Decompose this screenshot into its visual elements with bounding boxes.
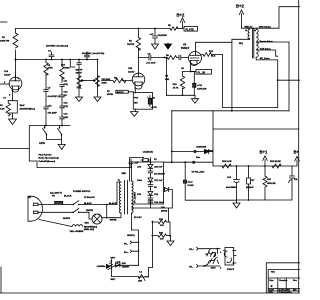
wire NFB [223, 55, 278, 108]
frame left tick [0, 22, 7, 293]
svg-text:C13: C13 [64, 103, 69, 105]
svg-text:R10: R10 [209, 51, 214, 53]
svg-text:63K: 63K [165, 79, 169, 81]
svg-text:PL6W: PL6W [188, 185, 195, 187]
svg-text:PD: PD [52, 196, 55, 198]
triode V1B [132, 72, 145, 89]
svg-text:Plub Pub BU: Plub Pub BU [39, 154, 52, 156]
svg-text:1uF: 1uF [135, 163, 139, 165]
wire B+2 right [292, 156, 299, 166]
svg-text:1.5K: 1.5K [0, 109, 5, 111]
capacitor col x=62 a [60, 85, 64, 96]
capacitor col x=62 d [60, 117, 64, 126]
wire plate V1A [15, 60, 17, 78]
svg-text:+C9 10uF: +C9 10uF [146, 63, 156, 65]
svg-text:C8: C8 [48, 65, 52, 67]
svg-text:1: 1 [220, 252, 222, 254]
cathode network V1A: resistor R1 and cap C1 [6, 90, 17, 119]
svg-text:10k: 10k [294, 179, 298, 181]
svg-text:R25: R25 [159, 219, 164, 221]
ground (filled) mid [165, 43, 172, 49]
svg-text:12AX7: 12AX7 [4, 74, 11, 77]
svg-text:C9: C9 [48, 88, 52, 90]
svg-text:B+2: B+2 [177, 13, 185, 18]
svg-text:D30: D30 [122, 263, 127, 265]
lamp NE1 [92, 214, 102, 224]
text labels preamp [0, 25, 216, 119]
svg-text:.1K: .1K [64, 95, 68, 97]
wire grid V1A [0, 83, 10, 85]
svg-text:R8: R8 [166, 55, 170, 57]
svg-text:R22 BL2W: R22 BL2W [270, 161, 282, 163]
svg-text:12AX7: 12AX7 [128, 71, 135, 74]
svg-text:C23/D30B: C23/D30B [196, 147, 206, 149]
switch S1b [73, 209, 89, 213]
svg-text:10uF/25V: 10uF/25V [158, 35, 168, 37]
wire preamp lower rail [0, 126, 70, 162]
svg-text:C4: C4 [48, 50, 52, 53]
svg-text:R7: R7 [107, 91, 111, 93]
resistor R6 [102, 78, 133, 82]
svg-text:FIL-: FIL- [189, 266, 193, 268]
svg-text:2x2: 2x2 [117, 262, 121, 264]
diode D4 out [164, 187, 169, 191]
svg-text:Number: Number [279, 280, 287, 282]
node plate V1A [15, 59, 17, 61]
svg-text:4.2-3: 4.2-3 [188, 181, 194, 184]
svg-text:FIL+: FIL+ [189, 249, 194, 251]
svg-text:PLATE: PLATE [186, 27, 195, 31]
capacitor C7 decoupling [153, 29, 158, 45]
transformer PT [119, 181, 133, 215]
svg-text:22uF/35V_blue(C2.2a): 22uF/35V_blue(C2.2a) [46, 46, 68, 48]
svg-text:NE1: NE1 [85, 223, 90, 225]
wire CT to pilot row [149, 268, 153, 277]
wire heater left connect [139, 276, 149, 278]
svg-text:R21: R21 [267, 179, 272, 181]
wire raw B+ up [172, 111, 213, 162]
svg-text:470K: 470K [48, 67, 54, 70]
svg-text:WHITE: WHITE [63, 218, 70, 220]
svg-text:R5: R5 [168, 25, 172, 27]
svg-text:BLK: BLK [211, 56, 216, 58]
wire PT primary leads [117, 182, 121, 205]
capacitor col x=62 c [60, 106, 64, 117]
cap to V3 grid [179, 55, 188, 60]
pot VR volume [93, 60, 100, 87]
node chain top [150, 161, 152, 163]
svg-text:FIL-: FIL- [124, 243, 128, 245]
resistor col x=46 [44, 60, 48, 88]
V1B cathode network [116, 89, 153, 116]
svg-text:PuBeNC(Brown): PuBeNC(Brown) [39, 161, 56, 163]
resistor R10 screen [201, 53, 223, 57]
socket pictorial [224, 248, 236, 266]
svg-text:+C11: +C11 [197, 85, 203, 87]
svg-text:P1NUT: P1NUT [227, 269, 235, 271]
svg-text:500K: 500K [65, 68, 71, 70]
svg-text:C12: C12 [64, 92, 69, 94]
svg-text:100K PW: 100K PW [0, 41, 10, 43]
svg-text:R1: R1 [0, 105, 4, 107]
wire plate net [231, 39, 233, 111]
svg-text:V1B: V1B [128, 68, 133, 70]
svg-text:U8: U8 [181, 68, 185, 70]
svg-text:47uF/50V_blue(C2.2b): 47uF/50V_blue(C2.2b) [82, 52, 105, 55]
wire OT tap brown [256, 42, 289, 111]
svg-text:BLACK: BLACK [109, 202, 117, 205]
svg-text:ORG 16ohm: ORG 16ohm [259, 26, 271, 28]
svg-text:C:\Dok\elk2a: C:\Dok\elk2a [279, 292, 293, 294]
svg-text:5uF/6.3W: 5uF/6.3W [197, 89, 207, 91]
svg-text:470-420F: 470-420F [48, 112, 58, 115]
coupling cap V1B plate [139, 55, 168, 60]
diode D4a [205, 149, 209, 153]
svg-text:WHT: WHT [111, 279, 117, 281]
resistor col x=62 [60, 60, 64, 83]
ground (open) heater CT [167, 241, 174, 246]
svg-text:FIL+: FIL+ [124, 252, 129, 254]
svg-text:(C5): (C5) [64, 106, 68, 108]
svg-text:6h00: 6h00 [211, 268, 217, 270]
frame right edge [298, 0, 300, 293]
svg-text:MO: MO [134, 102, 138, 104]
resistor R2 [13, 29, 18, 60]
svg-text:1.5A(SLB): 1.5A(SLB) [143, 151, 154, 154]
resistor R14 [185, 162, 236, 200]
B+1 filter rail [213, 165, 292, 167]
svg-text:(2400): (2400) [161, 210, 167, 213]
svg-text:+POR: +POR [151, 107, 157, 109]
svg-text:GRN/YL: GRN/YL [127, 235, 136, 237]
triode V1A [9, 76, 22, 93]
svg-text:1N4007: 1N4007 [122, 265, 130, 268]
pentode V3 [189, 52, 202, 67]
svg-text:WHITE: WHITE [86, 210, 93, 212]
svg-text:3: 3 [9, 95, 11, 97]
AC plug [28, 196, 73, 221]
wire OT tap bk [256, 57, 300, 107]
ground (filled) V1A cathode [9, 119, 17, 125]
svg-text:4: 4 [220, 267, 222, 270]
svg-text:C20 1uF: C20 1uF [154, 167, 163, 169]
svg-text:(C2): (C2) [64, 84, 68, 86]
svg-text:4R7W: 4R7W [107, 93, 114, 96]
svg-text:500K: 500K [102, 83, 108, 85]
heater CT resistors R25 R26 [151, 221, 153, 268]
wire V3 plate to OT [196, 42, 232, 51]
capacitor col x=46 b [44, 105, 48, 126]
cathode network V3 [166, 57, 212, 104]
svg-text:C10: C10 [48, 106, 53, 108]
wire raw B+ bus [172, 110, 290, 112]
net label PLATE [184, 27, 198, 32]
svg-text:Body-Tip-on(1.8mg): Body-Tip-on(1.8mg) [39, 158, 59, 160]
resistor R5 to B+2 [170, 27, 178, 31]
svg-text:POWER SWITCH: POWER SWITCH [73, 191, 91, 193]
wire OT tap ylw [256, 50, 278, 56]
svg-text:B: B [271, 284, 273, 288]
V1 heater coils [204, 249, 219, 266]
svg-text:AC: AC [28, 196, 32, 199]
svg-text:VR2 50K: VR2 50K [102, 79, 111, 81]
pilot light cluster [124, 230, 139, 265]
svg-text:C23: C23 [137, 194, 142, 196]
svg-text:VELL-GREEN: VELL-GREEN [70, 231, 84, 233]
svg-text:BK(1)C: BK(1)C [117, 92, 125, 94]
resistor R21 [263, 166, 267, 200]
svg-text:25uF/25V(Blue): 25uF/25V(Blue) [20, 109, 36, 111]
fuse F1 [55, 201, 63, 204]
svg-text:1.2: 1.2 [139, 272, 143, 274]
ground (open) C7 [152, 44, 159, 49]
svg-text:V1: V1 [205, 254, 208, 256]
svg-text:Fil 6.3V: Fil 6.3V [134, 217, 142, 219]
ground (open) below columns [58, 144, 65, 149]
wire wiper [84, 80, 94, 82]
svg-text:Title: Title [271, 271, 276, 274]
svg-text:Size: Size [269, 280, 274, 282]
svg-text:R10: R10 [61, 65, 66, 67]
svg-text:25uF: 25uF [20, 105, 26, 107]
capacitor C16 [234, 166, 240, 200]
svg-text:C17: C17 [251, 180, 256, 182]
capacitor col x=62 b [60, 95, 64, 106]
svg-text:4.4-607(C.1): 4.4-607(C.1) [48, 95, 60, 98]
capacitor C5 [85, 52, 90, 60]
svg-text:RED-Tri: RED-Tri [245, 26, 253, 28]
svg-text:R2: R2 [2, 37, 6, 39]
B+1 arrow [263, 156, 268, 166]
svg-text:A/Ch: A/Ch [39, 141, 45, 145]
svg-text:240: 240 [161, 206, 165, 209]
svg-text:Rev: Rev [293, 280, 298, 282]
wire tone stub [70, 60, 75, 68]
svg-text:6.8K: 6.8K [64, 117, 69, 119]
wire top supply rail y=28.5 [16, 28, 184, 30]
node terminal T1 [194, 150, 196, 152]
capacitor C4 [49, 52, 54, 60]
svg-text:C?: C? [3, 98, 7, 100]
svg-text:180nF: 180nF [76, 72, 83, 74]
svg-text:BLACK: BLACK [84, 202, 92, 205]
svg-text:C11: C11 [64, 81, 69, 83]
svg-text:RED: RED [122, 173, 127, 175]
ground pigtail green [39, 220, 72, 227]
svg-text:22R: 22R [138, 280, 142, 282]
svg-text:NE51-A(2): NE51-A(2) [84, 228, 95, 231]
B+2 arrow [180, 18, 185, 29]
svg-text:R20 5.1W: R20 5.1W [222, 161, 232, 163]
LED P2 and diode D30 [97, 258, 139, 277]
pot tone [77, 76, 84, 87]
resistor R8 [167, 56, 179, 60]
svg-text:47.7K: 47.7K [173, 86, 179, 89]
svg-text:C22: C22 [154, 194, 159, 196]
svg-text:B+: B+ [294, 150, 300, 155]
ground (open) tone [76, 86, 83, 102]
svg-text:R4: R4 [129, 40, 133, 43]
svg-text:R13: R13 [173, 84, 178, 86]
svg-text:VOL: VOL [77, 85, 83, 89]
svg-text:PU7: PU7 [134, 97, 139, 99]
title block [266, 263, 300, 294]
svg-text:1P BLACK: 1P BLACK [84, 196, 95, 199]
cap tone top [77, 60, 81, 76]
svg-text:D4a: D4a [196, 156, 201, 159]
transformer OT [232, 7, 300, 58]
svg-text:WHITE: WHITE [110, 220, 117, 222]
wire PT sec bottom [131, 214, 133, 231]
ground rail B+1 [237, 189, 293, 200]
cap 1uF AC line [129, 159, 133, 168]
wire plate V1B [138, 58, 140, 73]
svg-text:PL_08: PL_08 [198, 70, 206, 74]
svg-text:70K7W: 70K7W [127, 44, 135, 46]
svg-text:C14: C14 [64, 113, 69, 116]
svg-text:NEONBK(2a): NEONBK(2a) [84, 226, 97, 228]
lamp NE1 wiring [89, 212, 92, 219]
svg-text:2xLL20K F1: 2xLL20K F1 [50, 192, 63, 194]
capacitor col x=46 a [44, 87, 48, 105]
svg-text:R9: R9 [165, 76, 169, 78]
switch A/Ch [43, 126, 63, 145]
resistor R23 [112, 275, 149, 281]
frame bottom line [0, 292, 300, 294]
node terminal T2 [193, 161, 195, 163]
svg-text:C24 .01uF: C24 .01uF [154, 201, 165, 204]
svg-text:V3: V3 [183, 43, 187, 47]
capacitor C17 [247, 166, 251, 200]
svg-text:100: 100 [160, 239, 164, 241]
wire rectifier out to B+1 rail [169, 190, 173, 209]
svg-text:D2 1N4007: D2 1N4007 [154, 173, 166, 176]
svg-text:6V6GT: 6V6GT [181, 46, 190, 50]
ground (open) volume [94, 86, 101, 102]
wire to B+1 box [213, 111, 299, 166]
svg-text:40uF/350V: 40uF/350V [226, 186, 237, 189]
svg-text:D1: D1 [154, 159, 158, 161]
wire plate rail y=59.5 [16, 59, 98, 61]
svg-text:100: 100 [160, 225, 164, 227]
svg-text:BLACK: BLACK [64, 195, 72, 198]
svg-text:B+1: B+1 [260, 150, 268, 155]
svg-text:V3 PAL+HAJ: V3 PAL+HAJ [192, 171, 206, 174]
svg-text:56k TP: 56k TP [76, 69, 83, 71]
svg-text:1N4007: 1N4007 [206, 150, 214, 153]
svg-text:R26: R26 [159, 233, 164, 235]
svg-text:V1A: V1A [4, 70, 9, 73]
svg-text:C16: C16 [227, 177, 232, 179]
switch S1a [73, 201, 117, 205]
svg-text:GRN.2W: GRN.2W [267, 183, 277, 185]
svg-text:C19: C19 [137, 167, 142, 169]
resistor R4 [136, 29, 140, 58]
svg-text:D3: D3 [154, 187, 158, 189]
svg-text:C21 1uF: C21 1uF [154, 180, 163, 182]
B+2 arrow OT [239, 10, 243, 28]
rectifier chain [130, 151, 213, 205]
rectifier bottom row [132, 200, 173, 222]
svg-text:100u: 100u [137, 180, 143, 182]
resistor R20 [222, 164, 231, 168]
svg-text:E140uF: E140uF [246, 186, 254, 189]
svg-text:3A: 3A [152, 97, 155, 100]
svg-text:B+2: B+2 [236, 4, 244, 9]
resistor R22 [272, 164, 281, 168]
capacitor C18 [289, 166, 295, 189]
svg-text:LS0059a: LS0059a [97, 266, 106, 268]
svg-text:BK): BK) [239, 43, 243, 45]
